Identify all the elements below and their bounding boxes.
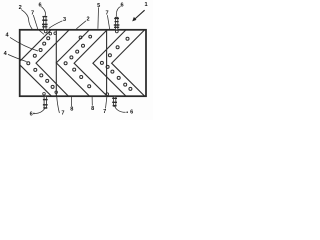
svg-text:1: 1	[144, 2, 147, 8]
fitting F1 top-left	[42, 16, 48, 29]
partition end ring bottom-left	[55, 91, 58, 94]
svg-text:7: 7	[103, 109, 106, 115]
svg-text:6: 6	[130, 110, 133, 116]
chevron plate B2 inner	[74, 30, 107, 96]
nozzle hole ring top-right	[115, 30, 118, 33]
leader for label 6 bottom-right	[115, 106, 126, 112]
perforations B2	[64, 35, 92, 88]
vessel shell	[20, 30, 146, 96]
leader dot 6 bottom-right	[126, 111, 128, 113]
perforations B1	[27, 37, 54, 89]
chevron plate B1 outer	[18, 30, 52, 96]
svg-text:7: 7	[61, 110, 64, 116]
plate end holes top-left	[49, 32, 52, 35]
chevron plate B3 inner	[112, 30, 145, 96]
chevron plate B3 outer	[93, 30, 126, 96]
svg-text:3: 3	[63, 17, 66, 23]
leader for label 4 lower	[8, 54, 27, 61]
leader for label 2 top-centre	[76, 21, 86, 29]
svg-text:8: 8	[70, 107, 73, 113]
chevron plate B1 inner	[36, 30, 69, 96]
svg-text:8: 8	[91, 106, 94, 112]
leader for label 2 top-left	[21, 10, 32, 30]
leader for label 5	[97, 7, 100, 28]
svg-text:2: 2	[86, 16, 89, 22]
chevron plate B2 outer	[56, 30, 89, 96]
svg-text:6: 6	[30, 112, 33, 118]
svg-text:6: 6	[38, 2, 41, 8]
flow arrow 1	[135, 10, 145, 19]
svg-text:7: 7	[106, 11, 109, 17]
fitting F2 top-right	[114, 17, 120, 30]
svg-text:7: 7	[31, 10, 34, 16]
partition plate P1	[55, 30, 57, 97]
fitting F4 bottom-right	[112, 96, 117, 106]
leader for label 7 top-left	[33, 15, 44, 34]
fitting F3 bottom-left	[43, 96, 48, 108]
leader for label 4 upper	[10, 37, 38, 51]
leader for label 7 top-right	[107, 15, 109, 29]
leader for label 8 left	[71, 96, 73, 106]
leader for label 6 top-left	[41, 7, 45, 17]
nozzle hole ring top-left	[44, 30, 47, 33]
svg-text:6: 6	[120, 2, 123, 8]
svg-text:2: 2	[19, 5, 22, 11]
leader for label 6 bottom-left	[35, 108, 45, 113]
leader dot 6 bottom-left	[33, 113, 35, 115]
nozzle hole ring bottom-left	[43, 93, 46, 96]
perforations B3	[100, 37, 131, 90]
leader for label 3	[49, 21, 63, 29]
leader for label 7 bottom-left	[57, 95, 60, 113]
svg-text:5: 5	[97, 3, 100, 9]
partition end ring bottom-right	[106, 93, 109, 96]
leader for label 8 right	[91, 96, 93, 105]
partition plate P2	[106, 30, 108, 97]
leader for label 6 top-right	[116, 6, 120, 16]
leader for label 7 bottom-right	[106, 97, 107, 109]
